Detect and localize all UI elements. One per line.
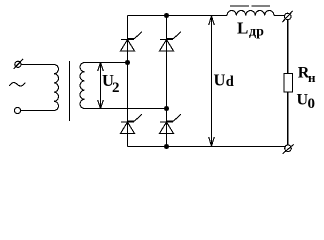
- label U2: [102, 71, 120, 96]
- svg-text:L: L: [237, 19, 248, 38]
- label U0: [297, 92, 316, 113]
- terminal output top-right (circle with slash): [282, 11, 293, 22]
- svg-text:0: 0: [308, 96, 316, 112]
- junction dot top bus / right branch: [164, 13, 169, 18]
- wire top bus (left part, bridge to inductor): [128, 15, 228, 17]
- wire right rail lower (resistor to bottom-right terminal): [287, 92, 289, 145]
- inductor L (choke) winding: [227, 11, 274, 16]
- arrow U2 (secondary voltage, double-headed): [98, 63, 104, 109]
- thyristor VS4 (bottom-right): [160, 114, 182, 133]
- terminal input top-left (circle with slash): [13, 59, 23, 69]
- thyristor VS2 (top-right): [160, 32, 182, 51]
- label Rn: [298, 65, 316, 86]
- terminal input bottom-left (circle): [14, 107, 20, 113]
- thyristor VS1 (top-left): [121, 32, 143, 51]
- resistor Rn: [284, 74, 293, 93]
- wire inductor to top-right terminal: [274, 15, 285, 17]
- arrow Ud (rectified voltage, double-headed): [209, 16, 215, 146]
- svg-text:U: U: [214, 71, 226, 90]
- inductor core dash 1: [230, 5, 249, 7]
- wire right bridge branch: [166, 16, 168, 147]
- junction dot bottom bus / right branch: [164, 144, 169, 149]
- wire from top-left terminal to primary winding: [21, 64, 54, 66]
- terminal output bottom-right (circle with slash): [283, 144, 294, 153]
- label L dr: [237, 19, 264, 40]
- wire secondary top to node A: [85, 62, 128, 64]
- svg-text:н: н: [308, 70, 316, 85]
- wire from bottom-left terminal to primary winding: [21, 110, 54, 112]
- AC source symbol ~: [9, 83, 25, 86]
- wire right rail upper (terminal to resistor): [287, 20, 289, 74]
- svg-text:d: d: [226, 74, 234, 90]
- node A junction dot (secondary top to left branch): [125, 60, 130, 65]
- transformer T1 core: [69, 61, 71, 121]
- label Ud: [214, 71, 234, 91]
- transformer T1 primary winding: [54, 65, 59, 111]
- thyristor VS3 (bottom-left): [121, 114, 143, 133]
- svg-text:др: др: [249, 25, 264, 40]
- wire bottom bus: [128, 146, 286, 148]
- transformer T1 secondary winding: [80, 63, 85, 109]
- svg-text:2: 2: [112, 80, 120, 96]
- node B junction dot (secondary bottom to right branch): [164, 106, 169, 111]
- inductor core dash 2: [252, 5, 271, 7]
- wire left bridge branch: [127, 16, 129, 147]
- wire secondary bottom to node B: [85, 108, 167, 110]
